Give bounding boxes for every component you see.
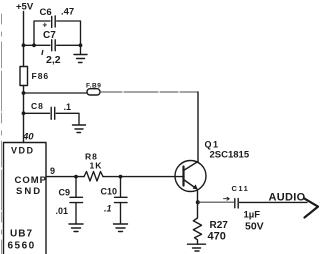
svg-text:C8: C8: [31, 101, 44, 111]
ground (C10): [114, 224, 128, 232]
scan page edge (left): [1, 14, 3, 254]
wire C7 to ground: [80, 45, 82, 53]
svg-text:C7: C7: [43, 30, 56, 41]
svg-text:C6: C6: [40, 7, 52, 18]
svg-text:470: 470: [208, 231, 226, 243]
node junction C10: [119, 175, 123, 179]
svg-text:UB7: UB7: [10, 229, 33, 240]
ground (C9): [69, 224, 83, 232]
svg-text:C9: C9: [59, 188, 71, 198]
svg-text:F86: F86: [32, 71, 50, 81]
svg-text:Q1: Q1: [205, 140, 220, 150]
wire R8 to Q1 base: [103, 176, 184, 178]
wire C6 left branch: [34, 21, 50, 45]
svg-text:+5V: +5V: [16, 2, 34, 13]
capacitor C8: [51, 107, 55, 119]
svg-text:C11: C11: [232, 184, 250, 193]
IC U1 (VIC 6560) outline: [4, 143, 47, 254]
Q1 base bar: [182, 167, 184, 186]
svg-text:1K: 1K: [90, 161, 103, 171]
wire +5V main vertical to FB6: [23, 12, 25, 67]
capacitor C11: [235, 199, 238, 209]
node junction C9: [74, 175, 78, 179]
svg-text:6560: 6560: [8, 241, 36, 252]
transistor Q1 circle: [175, 161, 206, 192]
wire C8 row: [24, 112, 50, 114]
ferrite bead FB6: [20, 67, 28, 86]
resistor R27: [193, 202, 201, 243]
node emitter junction: [196, 200, 200, 204]
svg-text:.47: .47: [61, 7, 74, 18]
svg-text:R27: R27: [210, 220, 229, 231]
svg-text:VDD: VDD: [11, 146, 35, 156]
Q1 emitter stroke with arrow: [184, 180, 196, 189]
wire C11 to AUDIO arrow: [240, 201, 308, 203]
C7 polarity tick: [41, 51, 44, 55]
svg-text:40: 40: [22, 132, 34, 143]
svg-text:.1: .1: [104, 204, 112, 214]
svg-text:AUDIO: AUDIO: [269, 192, 306, 204]
capacitor C6: [52, 16, 56, 28]
ground (C6/C7): [74, 55, 87, 63]
wire C8 to ground: [56, 113, 79, 124]
junction dots C6/C7: [22, 43, 26, 47]
wire FB6 to chip pin 40: [23, 86, 25, 143]
node junction C8 row: [22, 111, 26, 115]
ferrite bead FB9: [87, 89, 100, 95]
wire FB9 to collector vertical: [100, 91, 198, 93]
capacitor C9: [75, 177, 77, 197]
capacitor C7: [52, 40, 56, 51]
svg-text:.01: .01: [56, 206, 69, 216]
AUDIO arrow head: [304, 198, 318, 217]
svg-text:F.B9: F.B9: [86, 83, 101, 90]
Q1 collector stroke: [184, 162, 199, 171]
wire C7 row: [24, 44, 81, 46]
node junction FB9 row: [22, 91, 26, 95]
wire Q1 emitter to node: [197, 190, 199, 202]
wire collector vertical: [197, 92, 199, 162]
ground (C8): [73, 125, 86, 133]
svg-text:1µF: 1µF: [244, 210, 261, 221]
svg-text:2SC1815: 2SC1815: [210, 150, 250, 161]
svg-text:50V: 50V: [245, 221, 264, 233]
wire C6 right to corner: [57, 21, 81, 45]
wire pin 9 to R8: [46, 176, 84, 178]
svg-text:COMP: COMP: [15, 175, 48, 186]
svg-text:+: +: [43, 21, 48, 30]
svg-text:9: 9: [50, 166, 55, 176]
wire emitter node to C11: [198, 201, 234, 203]
capacitor C10: [120, 177, 122, 197]
svg-text:SND: SND: [16, 186, 42, 197]
svg-text:C10: C10: [101, 187, 118, 197]
resistor R8: [84, 172, 103, 182]
svg-text:.1: .1: [64, 102, 72, 112]
ground (R27): [188, 244, 206, 251]
svg-text:2,2: 2,2: [46, 54, 61, 66]
wire to FB9: [24, 92, 88, 94]
C11 polarity arrow: [224, 197, 230, 200]
